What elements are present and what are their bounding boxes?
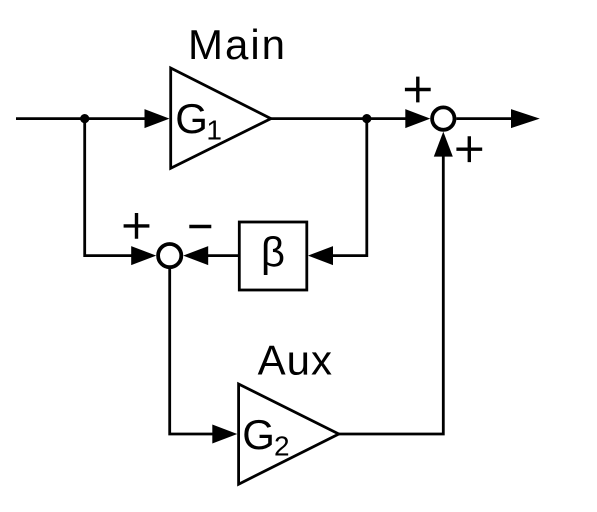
arrowhead into beta block xyxy=(308,246,333,265)
wire: G2 output up to summer S1 xyxy=(339,155,444,434)
amplifier G2 (Aux) triangle xyxy=(239,384,339,484)
summer S1 (output summing junction) xyxy=(432,107,454,129)
wire: G1 output to summer S1 xyxy=(271,117,408,120)
node: input junction dot xyxy=(80,114,89,123)
wire: input from left edge to G1 xyxy=(16,117,146,120)
arrowhead into amplifier G1 xyxy=(145,109,170,128)
wire: summer S1 output xyxy=(456,117,512,120)
label + (S1 left input) xyxy=(405,77,431,103)
amplifier G1 (Main) triangle xyxy=(171,68,271,168)
wire: summer S2 output down to G2 xyxy=(170,269,214,435)
arrowhead output xyxy=(511,109,540,128)
label + (S2 left input) xyxy=(124,213,150,239)
wire: beta output to summer S2 xyxy=(207,254,239,257)
summer S2 (error summing junction) xyxy=(158,244,181,267)
arrowhead into summer S2 (- input) xyxy=(183,246,208,265)
label - (S2 right input) xyxy=(189,225,211,228)
svg-text:β: β xyxy=(261,228,285,275)
arrowhead up into summer S1 (bottom + input) xyxy=(434,132,453,157)
node: G1 output junction dot xyxy=(362,114,371,123)
label + (S1 bottom input) xyxy=(456,136,482,162)
svg-text:Aux: Aux xyxy=(258,337,333,384)
arrowhead into summer S2 (+ input) xyxy=(131,246,156,265)
block beta xyxy=(239,222,306,290)
wire: junction down to beta block xyxy=(331,119,367,256)
arrowhead into summer S1 (left + input) xyxy=(405,109,430,128)
arrowhead into amplifier G2 xyxy=(212,425,237,444)
svg-text:Main: Main xyxy=(188,21,287,68)
wire: input junction down to error summer xyxy=(85,119,133,256)
